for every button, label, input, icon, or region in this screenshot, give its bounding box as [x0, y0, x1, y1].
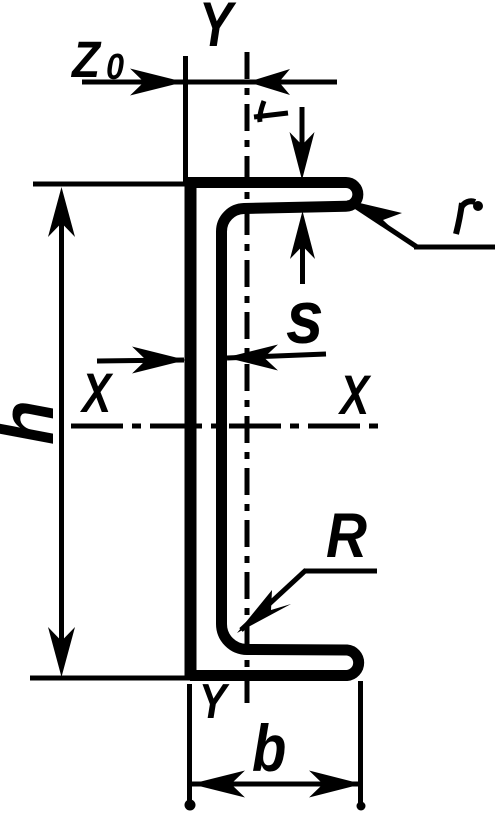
- dimension s: right line and left-pointing arrowhead: [227, 354, 326, 358]
- axis Y (dash-dot vertical): [245, 52, 250, 706]
- dimension h: up arrowhead: [48, 187, 75, 237]
- svg-text:X: X: [79, 362, 113, 424]
- leader r: arrowhead: [347, 200, 402, 235]
- axis X (dash-dot horizontal): [71, 424, 386, 429]
- dimension b: right extension line with end dot: [358, 681, 363, 806]
- dimension Z0: left-pointing arrowhead: [248, 69, 290, 95]
- dimension Z0: right-pointing arrowhead: [130, 69, 184, 96]
- dimension Z0: dimension line: [82, 80, 337, 85]
- bottom extension line: [30, 676, 190, 681]
- svg-text:Y: Y: [199, 674, 230, 729]
- leader R: horizontal and diagonal line with arrowhead: [304, 569, 377, 574]
- label t (hand-drawn): [260, 101, 264, 122]
- svg-text:h: h: [0, 400, 69, 445]
- svg-text:b: b: [252, 712, 286, 785]
- dimension b: left extension line with end dot: [187, 684, 192, 804]
- svg-text:Z: Z: [70, 32, 102, 89]
- svg-text:R: R: [326, 500, 367, 570]
- leader r: diagonal and horizontal line: [352, 204, 417, 247]
- svg-text:0: 0: [106, 47, 124, 87]
- web left face: [185, 178, 197, 680]
- svg-text:Y: Y: [199, 0, 237, 60]
- dimension h: down arrowhead: [48, 627, 75, 677]
- dimension t: lower line and up arrowhead: [300, 245, 305, 284]
- dimension b: right-pointing arrowhead: [309, 771, 362, 798]
- dimension h: dimension line: [59, 200, 64, 660]
- channel section outline: [186, 183, 359, 676]
- dimension b: dimension line: [192, 782, 358, 787]
- label r (hand-drawn): [456, 203, 462, 234]
- dimension s: left line and right-pointing arrowhead: [97, 360, 184, 361]
- dimension b: left-pointing arrowhead: [191, 771, 245, 798]
- dimension t: upper line and down arrowhead: [300, 107, 305, 150]
- top extension line: [33, 182, 190, 187]
- svg-text:s: s: [286, 276, 324, 360]
- svg-text:X: X: [337, 364, 371, 426]
- dimension Z0: extension line above web left face: [183, 56, 188, 182]
